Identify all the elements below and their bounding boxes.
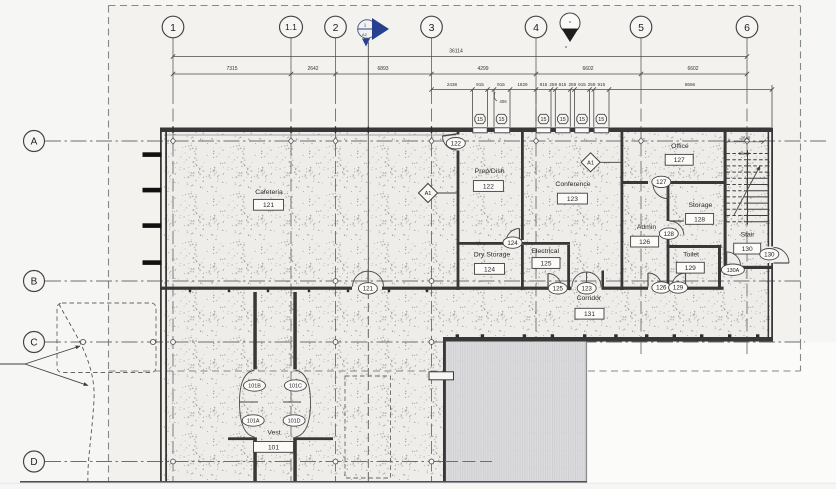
elevation marker bbox=[560, 13, 580, 48]
exterior wall: east bbox=[768, 128, 770, 247]
svg-text:122: 122 bbox=[483, 183, 494, 190]
svg-text:406: 406 bbox=[499, 99, 507, 104]
svg-text:36114: 36114 bbox=[449, 49, 463, 55]
svg-text:2: 2 bbox=[333, 22, 339, 34]
lower wing bottom edge bbox=[20, 481, 587, 483]
partition stub east of door 123 bbox=[602, 271, 605, 288]
svg-text:Prep/Dish: Prep/Dish bbox=[475, 168, 505, 175]
svg-text:128: 128 bbox=[694, 216, 705, 223]
svg-text:15: 15 bbox=[560, 117, 566, 123]
svg-text:2438: 2438 bbox=[447, 82, 458, 87]
door 127 bbox=[653, 184, 668, 199]
partition: dry storage north bbox=[457, 242, 506, 245]
svg-text:101B: 101B bbox=[248, 384, 261, 390]
svg-text:915: 915 bbox=[559, 82, 567, 87]
markers on grid C bbox=[80, 339, 85, 344]
svg-text:2642: 2642 bbox=[307, 66, 318, 72]
door 121 (double) bbox=[353, 271, 369, 286]
door tag 126 bbox=[652, 282, 671, 293]
svg-text:131: 131 bbox=[584, 311, 595, 318]
svg-text:130: 130 bbox=[742, 246, 753, 253]
door tag 101A bbox=[242, 415, 264, 426]
corridor north wall bbox=[160, 287, 352, 290]
svg-text:130: 130 bbox=[764, 251, 775, 258]
svg-text:123: 123 bbox=[567, 196, 578, 203]
door tag 130 bbox=[760, 249, 779, 260]
svg-text:259: 259 bbox=[588, 82, 596, 87]
partition: electrical east bbox=[567, 245, 570, 290]
svg-text:123: 123 bbox=[582, 286, 593, 293]
svg-text:915: 915 bbox=[540, 82, 548, 87]
svg-text:124: 124 bbox=[484, 266, 495, 273]
partition: cafeteria east / prep-dish west bbox=[457, 132, 460, 135]
room 128 Storage bbox=[686, 202, 714, 224]
deck threshold bbox=[429, 372, 454, 380]
vestibule doors 101 bbox=[240, 370, 255, 402]
svg-text:121: 121 bbox=[263, 202, 274, 209]
svg-text:2640: 2640 bbox=[741, 135, 751, 140]
svg-text:101: 101 bbox=[268, 444, 279, 451]
svg-text:122: 122 bbox=[451, 140, 462, 147]
svg-text:124: 124 bbox=[507, 240, 518, 247]
horizontal grid lines bbox=[45, 141, 829, 462]
svg-text:Storage: Storage bbox=[688, 202, 712, 209]
partition: stair south bbox=[740, 266, 772, 269]
svg-text:15: 15 bbox=[477, 117, 483, 123]
svg-text:6602: 6602 bbox=[687, 66, 698, 72]
door tag 101C bbox=[284, 380, 306, 391]
door tag 101B bbox=[244, 380, 266, 391]
door tag 101D bbox=[283, 415, 305, 426]
svg-text:Clear: Clear bbox=[739, 151, 750, 156]
door tag 129 bbox=[669, 282, 688, 293]
svg-text:A: A bbox=[31, 137, 38, 148]
room 122 Prep/Dish bbox=[473, 168, 504, 191]
window tags 15 bbox=[475, 114, 485, 123]
svg-text:125: 125 bbox=[553, 286, 564, 293]
revision arc bbox=[59, 304, 94, 484]
svg-text:6: 6 bbox=[744, 22, 750, 34]
svg-text:130A: 130A bbox=[727, 268, 740, 274]
svg-text:Toilet: Toilet bbox=[683, 252, 699, 259]
svg-text:15: 15 bbox=[579, 117, 585, 123]
dimension row 1 (36114) bbox=[171, 54, 749, 58]
svg-text:A1: A1 bbox=[425, 191, 432, 197]
open area right of deck bbox=[588, 343, 836, 485]
lower wing floor bbox=[164, 289, 443, 482]
svg-text:101A: 101A bbox=[247, 419, 260, 425]
svg-text:1: 1 bbox=[170, 22, 176, 34]
door 130A bbox=[727, 252, 741, 266]
lower wing west wall bbox=[160, 289, 162, 482]
svg-text:Office: Office bbox=[671, 143, 689, 150]
svg-text:915: 915 bbox=[578, 82, 586, 87]
svg-text:Stair: Stair bbox=[741, 232, 756, 239]
section marker A2 (blue) bbox=[358, 18, 389, 47]
room 129 Toilet bbox=[676, 252, 704, 273]
door 128 bbox=[669, 221, 684, 236]
grid bubbles 1..6 bbox=[162, 16, 184, 38]
leader arrows bbox=[0, 363, 25, 365]
svg-text:259: 259 bbox=[549, 82, 557, 87]
svg-text:D: D bbox=[30, 457, 37, 468]
door 124 bbox=[506, 229, 520, 243]
door tag 124 bbox=[503, 237, 522, 248]
lower wing east wall (at deck) bbox=[443, 342, 446, 372]
svg-text:101D: 101D bbox=[288, 419, 301, 425]
room 121 Cafeteria bbox=[254, 189, 284, 210]
svg-text:128: 128 bbox=[664, 231, 675, 238]
svg-text:C: C bbox=[30, 338, 37, 349]
svg-text:15: 15 bbox=[499, 117, 505, 123]
svg-text:915: 915 bbox=[476, 82, 484, 87]
svg-text:Electrical: Electrical bbox=[531, 248, 559, 255]
dimension row 3 (window spacing) bbox=[429, 85, 774, 127]
partition: toilet east bbox=[718, 248, 721, 287]
svg-text:121: 121 bbox=[363, 286, 374, 293]
svg-text:Corridor: Corridor bbox=[577, 295, 602, 302]
outdoor deck bbox=[446, 342, 587, 485]
door tag 123 bbox=[577, 283, 596, 294]
svg-text:15: 15 bbox=[541, 117, 547, 123]
D grid over deck bbox=[445, 461, 492, 463]
partition: office south bbox=[621, 181, 649, 184]
svg-text:Dry Storage: Dry Storage bbox=[474, 252, 510, 259]
svg-text:915: 915 bbox=[597, 82, 605, 87]
partition: toilet north bbox=[667, 245, 722, 248]
exterior wall: top bbox=[160, 128, 773, 133]
joint ticks south wall bbox=[189, 290, 191, 293]
room 123 Conference bbox=[555, 181, 590, 204]
door 126 bbox=[648, 273, 662, 287]
callout A1 bbox=[581, 153, 620, 172]
corridor floor bbox=[443, 287, 770, 337]
svg-text:1.1: 1.1 bbox=[285, 22, 297, 32]
room 131 Corridor bbox=[575, 295, 604, 319]
stair clear dim bbox=[728, 141, 764, 143]
door tag 130A bbox=[721, 264, 744, 275]
svg-text:Conference: Conference bbox=[555, 181, 590, 188]
svg-text:4: 4 bbox=[533, 22, 539, 34]
svg-text:Admin: Admin bbox=[637, 224, 656, 231]
room 127 Office bbox=[665, 143, 693, 165]
exterior wall: west (cafeteria) bbox=[160, 128, 162, 291]
door tag 128 bbox=[659, 228, 678, 239]
partition: stair west bbox=[724, 132, 727, 275]
door 130 (exit) bbox=[774, 248, 790, 264]
svg-text:5: 5 bbox=[638, 22, 644, 34]
main wing floor bbox=[164, 131, 770, 287]
stair up arrow bbox=[734, 166, 760, 215]
partition: admin east bbox=[667, 184, 670, 221]
door 122 bbox=[443, 136, 457, 150]
grid intersection circles bbox=[333, 279, 338, 284]
svg-text:915: 915 bbox=[497, 82, 505, 87]
grid intersection diamonds on line A bbox=[170, 138, 175, 144]
door 125 bbox=[548, 274, 561, 287]
svg-text:B: B bbox=[31, 277, 38, 288]
small dim 406 leader bbox=[494, 92, 497, 101]
svg-text:259: 259 bbox=[568, 82, 576, 87]
corridor south wall bbox=[443, 337, 773, 342]
dashed region box left bbox=[57, 303, 156, 373]
room 130 Stair bbox=[734, 232, 761, 254]
vestibule east wall bbox=[293, 292, 297, 369]
door tag 122 bbox=[446, 138, 465, 149]
svg-text:1829: 1829 bbox=[517, 82, 528, 87]
grid bubbles A..D bbox=[24, 131, 45, 152]
grid stubs crossing top wall bbox=[172, 127, 173, 134]
partition: conference east / admin west bbox=[621, 132, 624, 290]
svg-text:126: 126 bbox=[639, 239, 650, 246]
svg-text:126: 126 bbox=[656, 285, 667, 292]
svg-text:101C: 101C bbox=[289, 384, 302, 390]
svg-text:127: 127 bbox=[656, 179, 667, 186]
room 126 Admin bbox=[631, 224, 659, 247]
dashed region box lower center bbox=[345, 376, 391, 478]
windows (type 15) bbox=[473, 127, 488, 133]
dimension row 2 bbox=[171, 72, 749, 76]
svg-text:A1: A1 bbox=[587, 161, 594, 167]
svg-text:6893: 6893 bbox=[377, 66, 388, 72]
svg-text:15: 15 bbox=[598, 117, 604, 123]
drawing sheet area bbox=[109, 5, 801, 371]
svg-text:6602: 6602 bbox=[582, 66, 593, 72]
svg-text:Cafeteria: Cafeteria bbox=[255, 189, 283, 196]
svg-text:Vest: Vest bbox=[267, 430, 280, 437]
svg-text:129: 129 bbox=[685, 265, 696, 272]
room 125 Electrical bbox=[531, 248, 560, 269]
svg-text:4299: 4299 bbox=[477, 66, 488, 72]
section line A2 bbox=[367, 42, 369, 287]
door 129 bbox=[672, 273, 686, 287]
corridor wall joint ticks bbox=[456, 334, 459, 337]
svg-text:7315: 7315 bbox=[226, 66, 237, 72]
vestibule west wall bbox=[253, 292, 256, 369]
door tag 125 bbox=[548, 283, 567, 294]
vertical grid lines bbox=[173, 38, 747, 484]
room 101 Vest bbox=[254, 430, 294, 453]
svg-text:125: 125 bbox=[540, 260, 551, 267]
door 123 (double) bbox=[572, 272, 587, 287]
door tag 127 bbox=[652, 176, 671, 187]
svg-text:8656: 8656 bbox=[685, 82, 696, 87]
callout A1 bbox=[419, 184, 457, 203]
stair treads bbox=[727, 150, 768, 225]
svg-text:A2: A2 bbox=[362, 32, 368, 37]
partition: prep-dish east / conference west bbox=[521, 132, 524, 240]
svg-text:129: 129 bbox=[673, 285, 684, 292]
svg-text:127: 127 bbox=[674, 157, 685, 164]
vestibule side stubs bbox=[228, 437, 257, 440]
room 124 Dry Storage bbox=[474, 252, 510, 275]
bottom edge strip bbox=[0, 483, 836, 484]
svg-text:3: 3 bbox=[429, 22, 435, 34]
door tag 121 bbox=[358, 283, 377, 294]
facade mullion ticks bbox=[143, 152, 162, 157]
